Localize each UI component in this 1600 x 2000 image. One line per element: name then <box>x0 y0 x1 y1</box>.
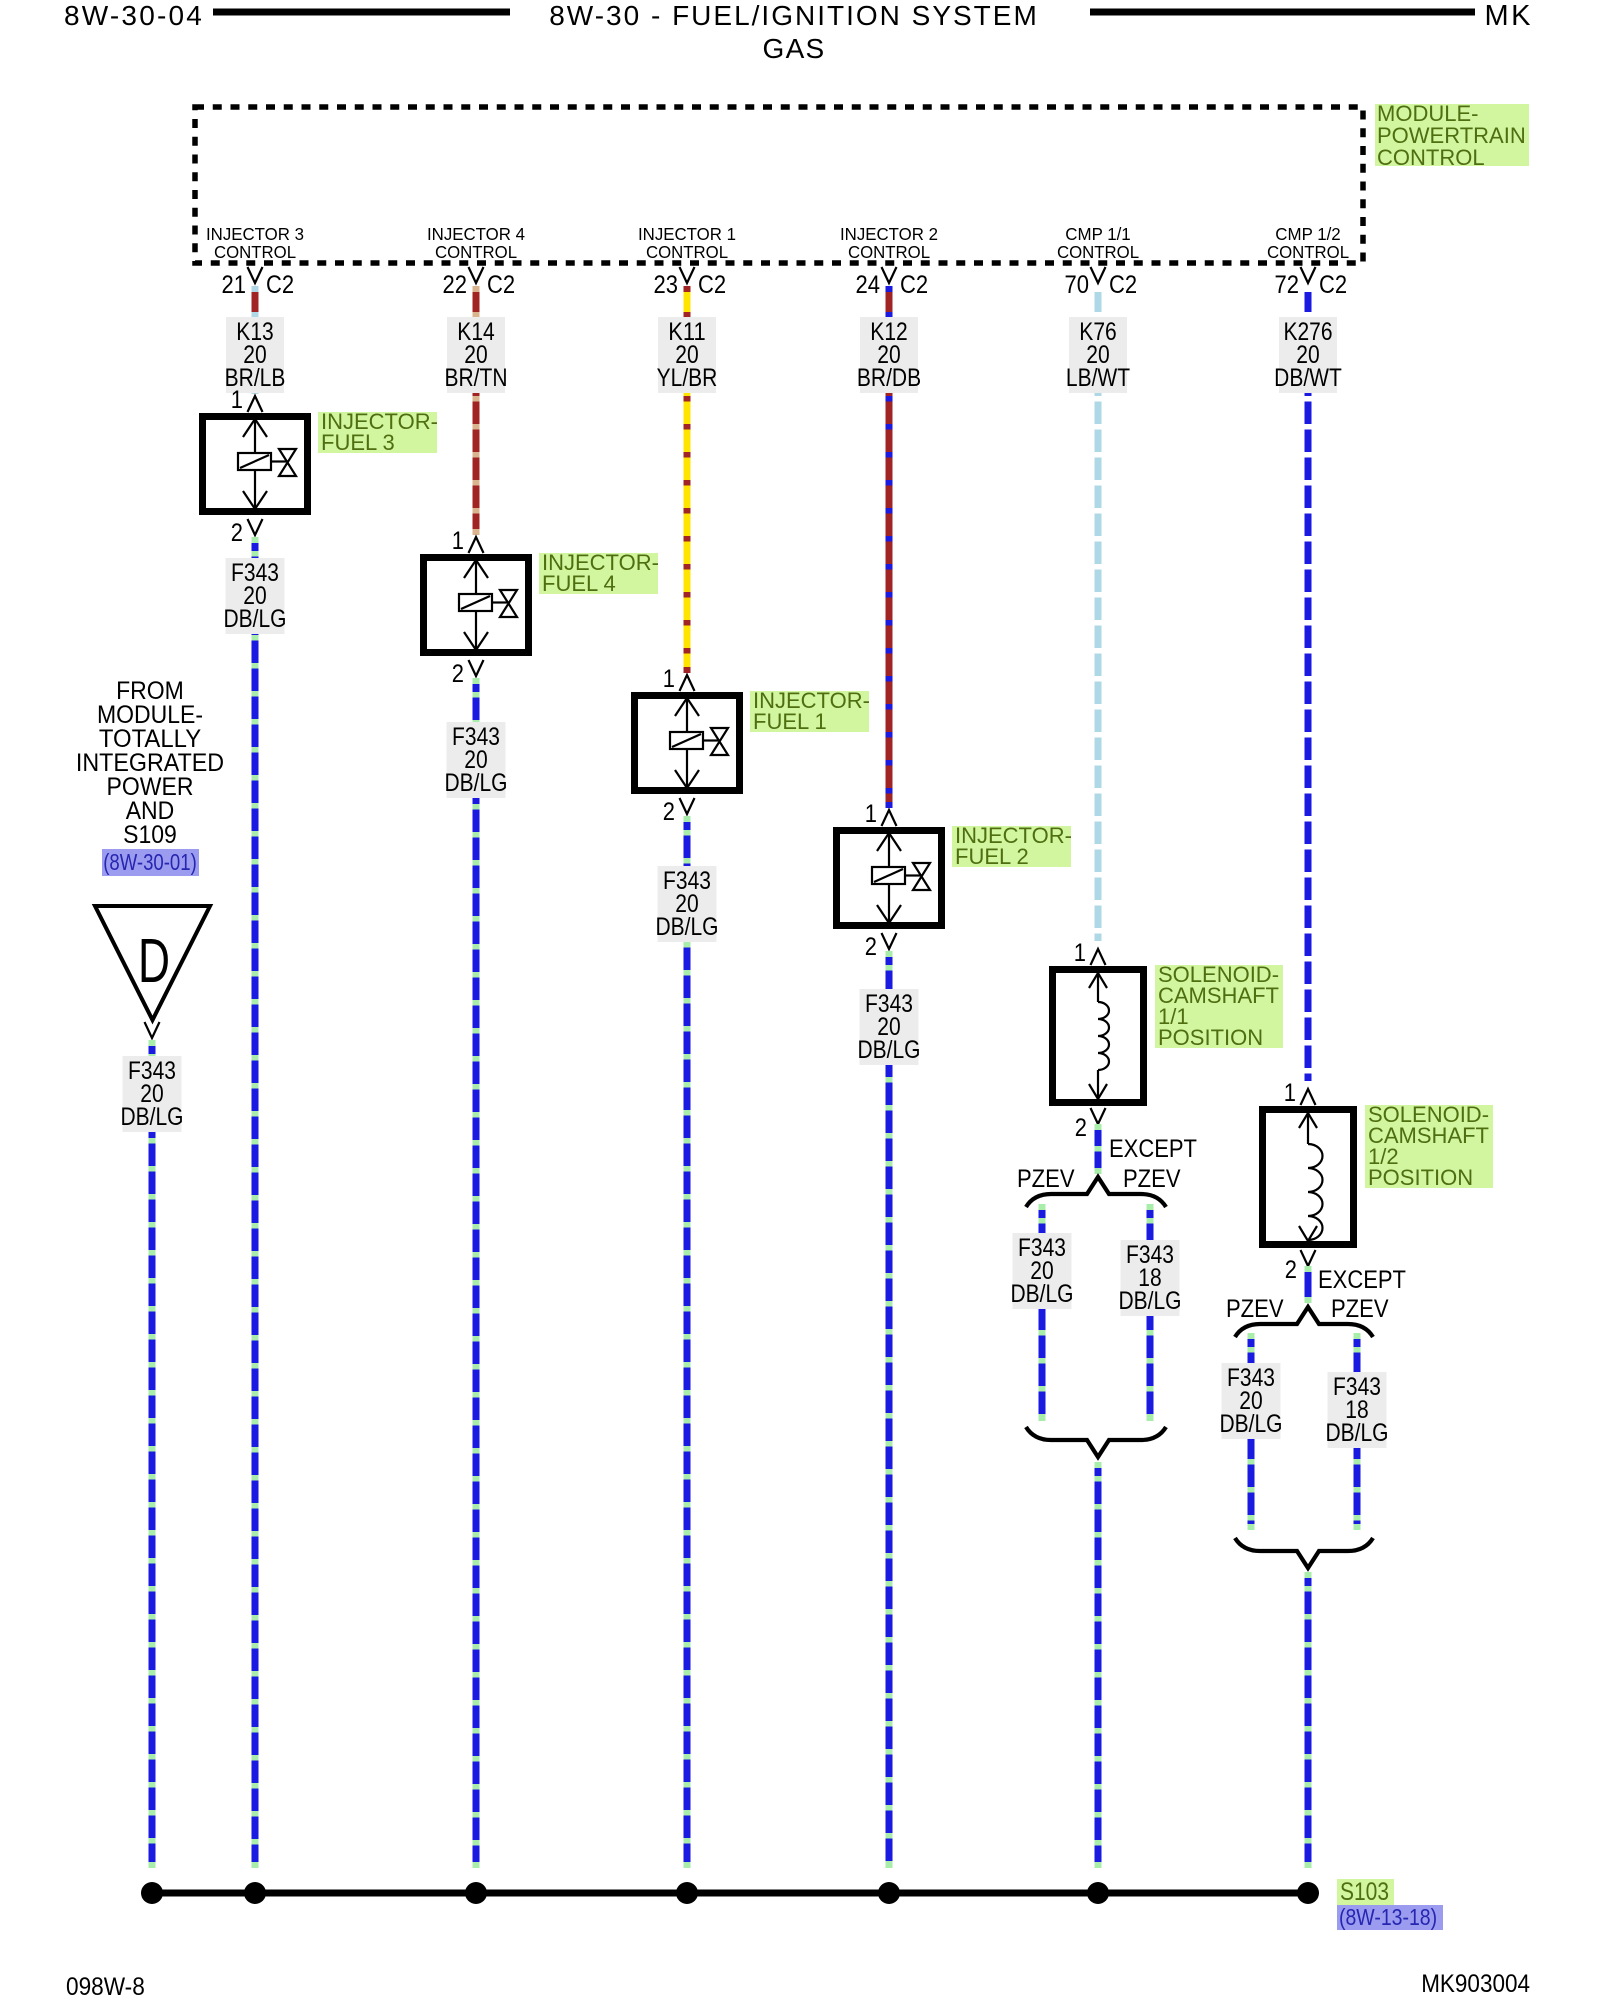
connector pin 70 C2 <box>1065 267 1138 299</box>
svg-text:CONTROL: CONTROL <box>1057 242 1139 262</box>
off-page connector D (triangle) <box>95 906 210 1020</box>
svg-text:2: 2 <box>1285 1256 1297 1284</box>
pin 1 of injector - fuel 1 <box>663 665 695 693</box>
wire F343 18 DB/LG except-PZEV branch <box>1354 1333 1361 1530</box>
wire F343 DB/LG to splice S103 <box>473 678 480 1868</box>
header rule right <box>1090 9 1475 16</box>
svg-text:CONTROL: CONTROL <box>1267 242 1349 262</box>
svg-text:GAS: GAS <box>762 33 825 64</box>
svg-text:1: 1 <box>1284 1079 1296 1107</box>
pin 2 of injector - fuel 4 <box>452 660 484 688</box>
pin 1 of injector - fuel 2 <box>865 800 897 828</box>
wire F343 18 DB/LG except-PZEV branch <box>1147 1204 1154 1421</box>
svg-text:1: 1 <box>1074 939 1086 967</box>
label F343 18 DB/LG branch label <box>1326 1372 1389 1448</box>
label K276 DB/WT wire label <box>1274 317 1342 393</box>
wire F343 DB/LG merged to splice S103 <box>1305 1572 1312 1868</box>
svg-text:DB/WT: DB/WT <box>1274 364 1342 392</box>
wire F343 DB/LG from connector D to splice S103 <box>149 1040 156 1868</box>
junction dot at x=1308 on splice S103 <box>1297 1882 1319 1904</box>
svg-text:FUEL 2: FUEL 2 <box>955 844 1029 869</box>
wire K11 YL/BR <box>684 286 691 673</box>
label EXCEPT PZEV (right branch CMP 1/1) <box>1109 1135 1197 1193</box>
svg-text:23: 23 <box>654 271 679 299</box>
pin 1 of injector - fuel 3 <box>231 386 263 414</box>
svg-text:DB/LG: DB/LG <box>1119 1287 1182 1315</box>
node: PCM output CMP 1/1 <box>1057 224 1139 262</box>
svg-text:8W-30-04: 8W-30-04 <box>64 0 204 31</box>
junction dot at x=152 on splice S103 <box>141 1882 163 1904</box>
svg-text:PZEV: PZEV <box>1017 1165 1075 1193</box>
split symbol CMP 1/1 branch split <box>1026 1177 1166 1207</box>
pin 2 of solenoid - camshaft 1/1 position <box>1075 1108 1106 1142</box>
wire F343 DB/LG merged to splice S103 <box>1095 1462 1102 1868</box>
label F343 20 DB/LG wire label <box>858 989 921 1065</box>
merge symbol CMP 1/1 branch merge <box>1026 1427 1166 1457</box>
svg-text:YL/BR: YL/BR <box>657 364 718 392</box>
label F343 20 DB/LG wire label <box>224 558 287 634</box>
label EXCEPT PZEV (right branch CMP 1/2) <box>1318 1266 1406 1323</box>
connector pin 23 C2 <box>654 267 727 299</box>
wire K14 BR/TN <box>473 286 480 535</box>
svg-text:2: 2 <box>231 519 243 547</box>
svg-text:DB/LG: DB/LG <box>1011 1280 1074 1308</box>
svg-text:FUEL 4: FUEL 4 <box>542 571 616 596</box>
svg-text:24: 24 <box>856 271 881 299</box>
svg-text:INJECTOR 2: INJECTOR 2 <box>840 224 938 244</box>
junction dot at x=1098 on splice S103 <box>1087 1882 1109 1904</box>
svg-text:C2: C2 <box>900 271 928 299</box>
wire K13 BR/LB <box>252 286 259 394</box>
svg-text:DB/LG: DB/LG <box>121 1103 184 1131</box>
svg-text:1: 1 <box>865 800 877 828</box>
fuel injector component: injector - fuel 1 <box>635 696 740 791</box>
camshaft position solenoid component: solenoid - camshaft 1/1 position <box>1053 970 1144 1103</box>
module box: powertrain control module (dashed outline) <box>195 107 1363 263</box>
svg-text:EXCEPT: EXCEPT <box>1109 1135 1197 1163</box>
svg-text:CONTROL: CONTROL <box>848 242 930 262</box>
svg-text:MK: MK <box>1485 0 1534 32</box>
pin 2 of injector - fuel 1 <box>663 798 695 826</box>
svg-text:(8W-13-18): (8W-13-18) <box>1339 1904 1437 1930</box>
label reference (8W-13-18) <box>1337 1904 1443 1930</box>
node: PCM output INJECTOR 2 <box>840 224 938 262</box>
svg-text:S103: S103 <box>1340 1878 1389 1906</box>
label K13 BR/LB wire label <box>225 317 286 393</box>
label MODULE-POWERTRAIN CONTROL <box>1375 101 1529 170</box>
svg-text:CONTROL: CONTROL <box>214 242 296 262</box>
svg-text:DB/LG: DB/LG <box>1220 1410 1283 1438</box>
label F343 20 DB/LG branch label <box>1011 1233 1074 1309</box>
svg-text:DB/LG: DB/LG <box>445 769 508 797</box>
svg-text:2: 2 <box>452 660 464 688</box>
wire F343 DB/LG stub below solenoid 1/2 <box>1305 1266 1312 1303</box>
pin 2 of injector - fuel 3 <box>231 519 263 547</box>
label solenoid - camshaft 1/1 position <box>1155 962 1283 1050</box>
junction dot at x=255 on splice S103 <box>244 1882 266 1904</box>
svg-text:22: 22 <box>443 271 468 299</box>
connector pin 72 C2 <box>1275 267 1348 299</box>
wire F343 DB/LG to splice S103 <box>684 816 691 1868</box>
label injector - fuel 1 <box>750 688 870 734</box>
junction dot at x=476 on splice S103 <box>465 1882 487 1904</box>
junction dot at x=889 on splice S103 <box>878 1882 900 1904</box>
svg-text:PZEV: PZEV <box>1331 1295 1389 1323</box>
header rule left <box>213 9 510 16</box>
wire F343 20 DB/LG PZEV branch <box>1039 1204 1046 1421</box>
svg-text:C2: C2 <box>1319 271 1347 299</box>
svg-text:098W-8: 098W-8 <box>66 1973 145 2000</box>
node: feed FROM MODULE-TOTALLY INTEGRATED POWER AND S109 <box>76 677 224 849</box>
camshaft position solenoid component: solenoid - camshaft 1/2 position <box>1263 1110 1354 1245</box>
svg-text:CMP 1/2: CMP 1/2 <box>1275 224 1340 244</box>
svg-text:PZEV: PZEV <box>1226 1295 1284 1323</box>
svg-text:CONTROL: CONTROL <box>435 242 517 262</box>
connector pin 22 C2 <box>443 267 516 299</box>
connector pin 21 C2 <box>222 267 295 299</box>
svg-text:21: 21 <box>222 271 247 299</box>
svg-text:1: 1 <box>231 386 243 414</box>
svg-text:1: 1 <box>663 665 675 693</box>
svg-text:S109: S109 <box>123 821 177 849</box>
fuel injector component: injector - fuel 2 <box>837 831 942 926</box>
svg-text:C2: C2 <box>266 271 294 299</box>
wire K276 DB/WT <box>1305 286 1312 1087</box>
pin 2 of solenoid - camshaft 1/2 position <box>1285 1250 1316 1284</box>
svg-text:INJECTOR 3: INJECTOR 3 <box>206 224 304 244</box>
svg-text:POSITION: POSITION <box>1368 1165 1473 1190</box>
pin 1 of solenoid - camshaft 1/2 position <box>1284 1079 1316 1107</box>
split symbol CMP 1/2 branch split <box>1235 1307 1373 1337</box>
svg-text:DB/LG: DB/LG <box>656 913 719 941</box>
svg-text:CONTROL: CONTROL <box>646 242 728 262</box>
label F343 18 DB/LG branch label <box>1119 1240 1182 1316</box>
svg-text:DB/LG: DB/LG <box>224 605 287 633</box>
connector chevron below D <box>145 1022 160 1038</box>
wire F343 20 DB/LG PZEV branch <box>1248 1333 1255 1530</box>
fuel injector component: injector - fuel 3 <box>203 417 308 512</box>
svg-text:C2: C2 <box>1109 271 1137 299</box>
wire F343 DB/LG to splice S103 <box>252 537 259 1868</box>
wire F343 DB/LG to splice S103 <box>886 951 893 1868</box>
fuel injector component: injector - fuel 4 <box>424 558 529 653</box>
svg-text:8W-30 - FUEL/IGNITION SYSTEM: 8W-30 - FUEL/IGNITION SYSTEM <box>549 0 1039 31</box>
svg-text:C2: C2 <box>487 271 515 299</box>
svg-text:BR/TN: BR/TN <box>445 364 508 392</box>
svg-text:DB/LG: DB/LG <box>1326 1419 1389 1447</box>
svg-text:EXCEPT: EXCEPT <box>1318 1266 1406 1294</box>
svg-text:MK903004: MK903004 <box>1421 1970 1530 1998</box>
label reference (8W-30-01) <box>102 849 199 876</box>
splice S103 bus <box>145 1890 1312 1897</box>
connector pin 24 C2 <box>856 267 929 299</box>
svg-text:BR/DB: BR/DB <box>857 364 921 392</box>
label injector - fuel 4 <box>539 550 659 596</box>
svg-text:PZEV: PZEV <box>1123 1165 1181 1193</box>
svg-text:LB/WT: LB/WT <box>1066 364 1130 392</box>
wire K76 LB/WT <box>1095 286 1102 947</box>
junction dot at x=687 on splice S103 <box>676 1882 698 1904</box>
pin 2 of injector - fuel 2 <box>865 933 897 961</box>
svg-text:DB/LG: DB/LG <box>858 1036 921 1064</box>
svg-text:CMP 1/1: CMP 1/1 <box>1065 224 1130 244</box>
label K14 BR/TN wire label <box>445 317 508 393</box>
svg-text:2: 2 <box>663 798 675 826</box>
label solenoid - camshaft 1/2 position <box>1365 1102 1493 1190</box>
label S103 <box>1337 1878 1394 1906</box>
label injector - fuel 2 <box>952 823 1072 869</box>
svg-text:1: 1 <box>452 527 464 555</box>
node: PCM output CMP 1/2 <box>1267 224 1349 262</box>
label injector - fuel 3 <box>318 409 438 455</box>
svg-text:C2: C2 <box>698 271 726 299</box>
node: PCM output INJECTOR 1 <box>638 224 736 262</box>
label K12 BR/DB wire label <box>857 317 921 393</box>
label F343 20 DB/LG branch label <box>1220 1363 1283 1439</box>
svg-text:CONTROL: CONTROL <box>1377 145 1485 170</box>
svg-text:INJECTOR 1: INJECTOR 1 <box>638 224 736 244</box>
node: PCM output INJECTOR 4 <box>427 224 525 262</box>
label F343 20 DB/LG wire label <box>121 1056 184 1132</box>
svg-text:72: 72 <box>1275 271 1300 299</box>
svg-text:INJECTOR 4: INJECTOR 4 <box>427 224 525 244</box>
wire F343 DB/LG stub below solenoid 1/1 <box>1095 1124 1102 1174</box>
merge symbol CMP 1/2 branch merge <box>1235 1538 1373 1568</box>
svg-text:POSITION: POSITION <box>1158 1025 1263 1050</box>
svg-text:FUEL 1: FUEL 1 <box>753 709 827 734</box>
svg-text:(8W-30-01): (8W-30-01) <box>103 849 197 875</box>
node: PCM output INJECTOR 3 <box>206 224 304 262</box>
label K11 YL/BR wire label <box>657 317 718 393</box>
pin 1 of injector - fuel 4 <box>452 527 484 555</box>
svg-text:2: 2 <box>865 933 877 961</box>
label K76 LB/WT wire label <box>1066 317 1130 393</box>
svg-text:FUEL 3: FUEL 3 <box>321 430 395 455</box>
pin 1 of solenoid - camshaft 1/1 position <box>1074 939 1106 967</box>
svg-text:2: 2 <box>1075 1114 1087 1142</box>
svg-text:D: D <box>138 927 170 996</box>
svg-text:70: 70 <box>1065 271 1090 299</box>
label F343 20 DB/LG wire label <box>445 722 508 798</box>
label F343 20 DB/LG wire label <box>656 866 719 942</box>
wire K12 BR/DB <box>886 286 893 808</box>
